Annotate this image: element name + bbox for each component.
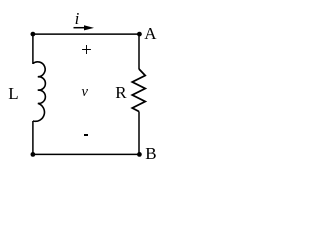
label + polarity [80, 44, 93, 57]
label v [82, 88, 88, 96]
label i [70, 12, 84, 26]
label A [144, 28, 156, 40]
wire right lower stub (resistor to B) [138, 112, 140, 155]
current arrow shaft [74, 27, 89, 29]
label R [115, 87, 126, 99]
wire bottom (to node B) [33, 153, 139, 155]
node dot top-left [31, 32, 36, 37]
current arrow head [84, 25, 94, 30]
inductor L coil [33, 62, 46, 122]
resistor R zigzag [132, 69, 145, 112]
label B [145, 148, 156, 160]
node B dot [137, 152, 142, 157]
label - polarity (drawn as bar) [84, 134, 88, 136]
wire left upper stub [32, 34, 34, 64]
node dot bottom-left [31, 152, 36, 157]
wire left lower stub [32, 121, 34, 154]
wire top (node to node A) [33, 33, 139, 35]
label L [8, 88, 18, 100]
node A dot [137, 32, 142, 37]
wire right upper stub (A to resistor) [138, 34, 140, 69]
